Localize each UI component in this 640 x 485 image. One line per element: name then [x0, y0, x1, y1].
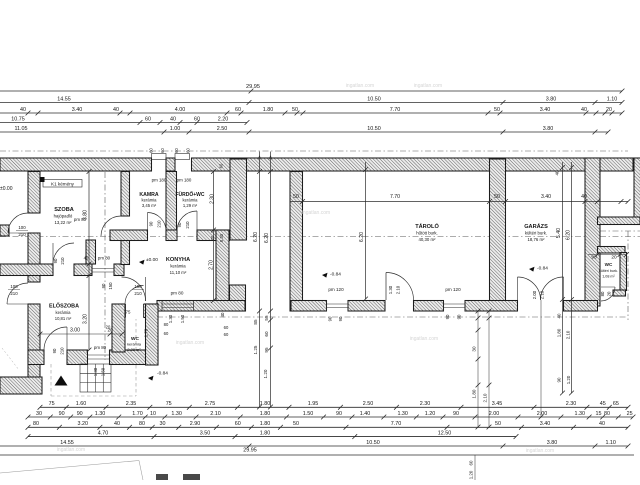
- svg-text:60: 60: [174, 148, 179, 153]
- svg-text:60: 60: [186, 148, 191, 153]
- svg-text:ingatlan.com: ingatlan.com: [414, 83, 442, 89]
- svg-text:20: 20: [106, 325, 111, 330]
- svg-text:20: 20: [611, 255, 617, 261]
- svg-text:90: 90: [591, 255, 597, 261]
- svg-text:6.20: 6.20: [264, 233, 270, 243]
- svg-text:2.20: 2.20: [218, 116, 229, 122]
- svg-text:ingatlan.com: ingatlan.com: [346, 83, 374, 89]
- svg-text:55: 55: [264, 315, 269, 321]
- svg-text:kültéri burk.: kültéri burk.: [525, 231, 547, 236]
- svg-text:90: 90: [457, 314, 462, 319]
- svg-text:65: 65: [613, 401, 619, 407]
- svg-text:90: 90: [557, 377, 562, 382]
- svg-text:1.50: 1.50: [303, 411, 314, 417]
- svg-text:20: 20: [607, 291, 612, 296]
- svg-text:90: 90: [52, 348, 57, 353]
- svg-text:1,08 m²: 1,08 m²: [602, 275, 615, 279]
- svg-text:60: 60: [469, 460, 474, 465]
- svg-text:210: 210: [157, 220, 162, 228]
- svg-text:1.80: 1.80: [557, 328, 562, 337]
- svg-text:13,22 m²: 13,22 m²: [55, 220, 73, 225]
- svg-text:1.40: 1.40: [360, 411, 371, 417]
- svg-text:kerámia: kerámia: [142, 198, 158, 203]
- svg-text:±0.00: ±0.00: [146, 257, 158, 263]
- svg-text:40: 40: [557, 313, 562, 318]
- svg-text:2.30: 2.30: [566, 401, 577, 407]
- svg-text:25: 25: [627, 411, 633, 417]
- svg-text:pm 80: pm 80: [98, 256, 111, 261]
- svg-text:TÁROLÓ: TÁROLÓ: [415, 222, 439, 230]
- svg-text:60: 60: [145, 116, 151, 122]
- svg-text:3.20: 3.20: [83, 314, 89, 324]
- svg-text:1.60: 1.60: [76, 401, 87, 407]
- svg-text:4.00: 4.00: [175, 107, 186, 113]
- svg-text:80: 80: [600, 291, 605, 296]
- svg-text:210: 210: [185, 221, 190, 229]
- svg-text:40: 40: [581, 194, 587, 200]
- svg-text:75: 75: [49, 401, 55, 407]
- svg-text:50: 50: [292, 107, 298, 113]
- svg-text:18,76 m²: 18,76 m²: [528, 237, 546, 242]
- svg-text:75: 75: [166, 401, 172, 407]
- svg-text:SZOBA: SZOBA: [54, 207, 74, 213]
- svg-text:100: 100: [18, 225, 26, 230]
- svg-text:10,81 m²: 10,81 m²: [55, 316, 72, 321]
- svg-text:1.80: 1.80: [472, 389, 477, 398]
- svg-text:1.30: 1.30: [575, 411, 586, 417]
- svg-text:kerámia: kerámia: [56, 310, 72, 315]
- svg-text:2.10: 2.10: [540, 290, 545, 299]
- svg-text:30: 30: [472, 346, 477, 352]
- svg-text:KONYHA: KONYHA: [166, 257, 190, 263]
- svg-text:210: 210: [60, 347, 65, 355]
- svg-text:60: 60: [164, 331, 169, 336]
- svg-text:3.50: 3.50: [200, 430, 211, 436]
- svg-text:210: 210: [10, 291, 18, 296]
- svg-text:1.20: 1.20: [566, 375, 571, 384]
- svg-text:90: 90: [77, 411, 83, 417]
- svg-text:1.30: 1.30: [397, 411, 408, 417]
- svg-text:1.95: 1.95: [308, 401, 319, 407]
- svg-text:kerámia: kerámia: [170, 264, 186, 269]
- svg-text:6.20: 6.20: [359, 232, 365, 242]
- svg-text:2.75: 2.75: [205, 401, 216, 407]
- svg-text:40: 40: [555, 170, 560, 175]
- svg-text:2,28 m²: 2,28 m²: [127, 347, 141, 352]
- svg-text:pm 120: pm 120: [445, 287, 461, 292]
- svg-text:210: 210: [60, 257, 65, 265]
- svg-text:90: 90: [338, 316, 343, 321]
- svg-text:60: 60: [224, 325, 229, 330]
- svg-text:15: 15: [596, 411, 602, 417]
- svg-text:1.80: 1.80: [263, 107, 274, 113]
- svg-text:6.20: 6.20: [253, 232, 259, 242]
- svg-text:60: 60: [149, 148, 154, 153]
- svg-text:90: 90: [53, 258, 58, 263]
- svg-text:3.20: 3.20: [78, 421, 89, 427]
- svg-text:50: 50: [494, 107, 500, 113]
- svg-text:150: 150: [108, 282, 113, 290]
- svg-text:29.95: 29.95: [246, 84, 260, 90]
- svg-text:ingatlan.com: ingatlan.com: [302, 210, 330, 216]
- svg-text:2.10: 2.10: [566, 330, 571, 339]
- svg-text:14.55: 14.55: [57, 96, 71, 102]
- svg-text:3,45 m²: 3,45 m²: [142, 203, 157, 208]
- svg-text:1.50: 1.50: [101, 367, 106, 376]
- svg-text:90: 90: [336, 411, 342, 417]
- svg-text:1.30: 1.30: [93, 367, 98, 376]
- svg-text:±0.00: ±0.00: [0, 186, 13, 192]
- svg-text:pm 180: pm 180: [177, 178, 192, 183]
- svg-text:kültéri burk.: kültéri burk.: [599, 269, 618, 273]
- svg-text:60: 60: [264, 331, 269, 337]
- svg-text:90: 90: [453, 411, 459, 417]
- svg-text:5.30: 5.30: [219, 233, 224, 242]
- svg-text:80: 80: [164, 322, 169, 327]
- svg-text:kerámia: kerámia: [127, 342, 142, 347]
- svg-text:210: 210: [18, 232, 26, 237]
- svg-text:210: 210: [134, 291, 142, 296]
- svg-text:2.50: 2.50: [217, 126, 228, 132]
- svg-text:pm 120: pm 120: [328, 287, 344, 292]
- svg-text:2.35: 2.35: [126, 401, 137, 407]
- svg-text:40: 40: [170, 116, 176, 122]
- svg-text:-0.84: -0.84: [157, 371, 168, 377]
- svg-text:45: 45: [600, 401, 606, 407]
- svg-text:pm 180: pm 180: [152, 178, 167, 183]
- svg-text:1.20: 1.20: [263, 369, 268, 378]
- svg-text:40: 40: [84, 256, 89, 261]
- svg-text:3.00: 3.00: [70, 328, 80, 334]
- svg-text:20: 20: [606, 107, 612, 113]
- svg-text:2.10: 2.10: [396, 285, 401, 294]
- svg-text:1.80: 1.80: [260, 430, 271, 436]
- svg-text:-0.84: -0.84: [537, 266, 548, 272]
- svg-text:50: 50: [494, 194, 500, 200]
- svg-text:ingatlan.com: ingatlan.com: [57, 447, 85, 453]
- svg-text:40: 40: [220, 312, 225, 317]
- svg-text:1.10: 1.10: [605, 440, 616, 446]
- svg-text:1.25: 1.25: [253, 345, 258, 354]
- svg-text:ingatlan.com: ingatlan.com: [410, 336, 438, 342]
- svg-text:hűtött burk.: hűtött burk.: [416, 231, 438, 236]
- svg-text:1.80: 1.80: [260, 401, 271, 407]
- svg-text:20: 20: [210, 235, 215, 240]
- svg-text:3.40: 3.40: [540, 107, 551, 113]
- svg-text:6.20: 6.20: [566, 230, 572, 240]
- svg-text:90: 90: [328, 316, 333, 321]
- svg-text:2.70: 2.70: [209, 260, 215, 270]
- svg-text:2.10: 2.10: [210, 411, 221, 417]
- svg-text:3.45: 3.45: [492, 401, 503, 407]
- svg-text:10.50: 10.50: [367, 96, 381, 102]
- svg-text:3.40: 3.40: [72, 107, 83, 113]
- svg-text:100: 100: [134, 284, 142, 289]
- svg-text:K1 kémény: K1 kémény: [51, 182, 75, 187]
- svg-text:60: 60: [160, 148, 165, 153]
- svg-text:1.80: 1.80: [260, 421, 271, 427]
- svg-text:ELŐSZOBA: ELŐSZOBA: [49, 303, 79, 310]
- svg-text:5.40: 5.40: [556, 228, 562, 238]
- svg-text:12.50: 12.50: [438, 430, 452, 436]
- svg-text:90: 90: [445, 314, 450, 319]
- svg-text:50: 50: [293, 421, 299, 427]
- svg-text:14.55: 14.55: [60, 440, 74, 446]
- svg-text:60: 60: [235, 107, 241, 113]
- svg-text:40: 40: [599, 421, 605, 427]
- svg-text:3.40: 3.40: [541, 194, 551, 200]
- svg-text:10.50: 10.50: [367, 126, 381, 132]
- svg-text:40: 40: [114, 421, 120, 427]
- svg-text:3.80: 3.80: [547, 440, 558, 446]
- svg-text:7.70: 7.70: [390, 107, 401, 113]
- svg-text:1.70: 1.70: [144, 328, 149, 337]
- svg-text:60: 60: [224, 332, 229, 337]
- svg-text:10.75: 10.75: [11, 116, 25, 122]
- svg-text:95: 95: [264, 347, 269, 353]
- svg-text:1.30: 1.30: [171, 411, 182, 417]
- svg-text:80: 80: [33, 421, 39, 427]
- svg-text:50: 50: [293, 194, 299, 200]
- svg-text:7.70: 7.70: [390, 194, 400, 200]
- svg-text:2.30: 2.30: [420, 401, 431, 407]
- svg-text:1.70: 1.70: [132, 411, 143, 417]
- svg-text:GARÁZS: GARÁZS: [524, 223, 548, 230]
- svg-text:pm 80: pm 80: [94, 345, 107, 350]
- svg-text:40: 40: [581, 107, 587, 113]
- svg-text:3.40: 3.40: [540, 421, 551, 427]
- svg-text:WC: WC: [605, 262, 613, 267]
- svg-text:80: 80: [604, 411, 610, 417]
- svg-text:100: 100: [10, 284, 18, 289]
- svg-text:2.50: 2.50: [363, 401, 374, 407]
- svg-text:80: 80: [139, 421, 145, 427]
- svg-text:60: 60: [235, 421, 241, 427]
- svg-text:1,29 m²: 1,29 m²: [183, 203, 198, 208]
- svg-text:kerámia: kerámia: [183, 198, 199, 203]
- svg-text:1.80: 1.80: [260, 411, 271, 417]
- svg-text:90: 90: [101, 283, 106, 288]
- svg-text:ingatlan.com: ingatlan.com: [526, 448, 554, 454]
- svg-text:7.70: 7.70: [391, 421, 402, 427]
- svg-text:30: 30: [160, 421, 166, 427]
- svg-text:10.50: 10.50: [366, 440, 380, 446]
- svg-text:90: 90: [59, 411, 65, 417]
- svg-text:11.05: 11.05: [14, 126, 27, 132]
- svg-text:1.00: 1.00: [170, 126, 181, 132]
- svg-text:50: 50: [495, 421, 501, 427]
- svg-text:40,30 m²: 40,30 m²: [419, 237, 437, 242]
- svg-text:90: 90: [177, 222, 182, 227]
- svg-text:40: 40: [20, 107, 26, 113]
- svg-text:pm 80: pm 80: [171, 291, 184, 296]
- svg-text:40: 40: [113, 107, 119, 113]
- svg-text:1.50: 1.50: [180, 314, 185, 323]
- svg-text:29.95: 29.95: [243, 448, 257, 454]
- svg-text:1.30: 1.30: [95, 411, 106, 417]
- svg-text:3.80: 3.80: [546, 96, 557, 102]
- svg-text:2.90: 2.90: [190, 421, 201, 427]
- svg-text:ingatlan.com: ingatlan.com: [176, 340, 204, 346]
- svg-text:1.30: 1.30: [168, 314, 173, 323]
- svg-text:11,10 m²: 11,10 m²: [170, 270, 187, 275]
- svg-text:1.30: 1.30: [388, 285, 393, 294]
- svg-text:2.00: 2.00: [532, 290, 537, 299]
- svg-text:2.00: 2.00: [537, 411, 548, 417]
- svg-text:pm 80: pm 80: [74, 217, 87, 222]
- svg-text:2.30: 2.30: [210, 194, 216, 204]
- svg-text:10: 10: [150, 411, 156, 417]
- svg-text:90: 90: [149, 221, 154, 226]
- svg-text:hajópadló: hajópadló: [54, 214, 73, 219]
- svg-text:2.10: 2.10: [483, 393, 488, 402]
- svg-text:75: 75: [126, 310, 131, 315]
- svg-text:60: 60: [194, 116, 200, 122]
- svg-text:85: 85: [253, 319, 258, 325]
- svg-text:60: 60: [219, 163, 224, 168]
- svg-text:3.80: 3.80: [543, 126, 554, 132]
- svg-text:1.20: 1.20: [469, 470, 474, 479]
- svg-text:2.00: 2.00: [489, 411, 500, 417]
- svg-text:4.70: 4.70: [98, 430, 109, 436]
- svg-text:-0.84: -0.84: [330, 272, 341, 278]
- svg-text:1.20: 1.20: [425, 411, 436, 417]
- svg-text:30: 30: [36, 411, 42, 417]
- svg-text:1.10: 1.10: [607, 96, 618, 102]
